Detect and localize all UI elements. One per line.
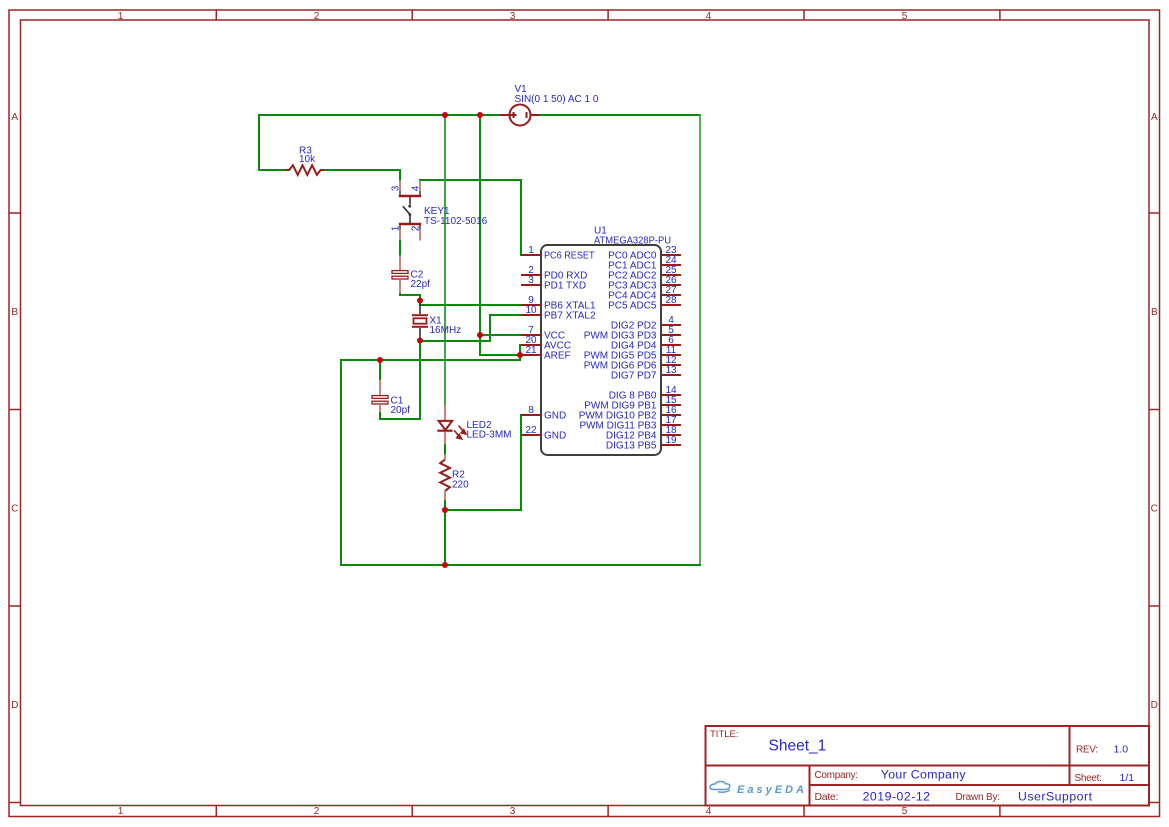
wire xyxy=(258,114,501,116)
wire xyxy=(699,114,701,566)
svg-text:EasyEDA: EasyEDA xyxy=(737,784,807,796)
svg-text:1: 1 xyxy=(391,225,402,231)
svg-text:5: 5 xyxy=(902,806,908,817)
svg-text:LED-3MM: LED-3MM xyxy=(467,430,512,441)
U1 pin 26 PC3 ADC3 xyxy=(608,275,681,292)
U1 pin 25 PC2 ADC2 xyxy=(608,265,681,282)
svg-text:DIG7 PD7: DIG7 PD7 xyxy=(611,371,657,382)
svg-text:DIG13 PB5: DIG13 PB5 xyxy=(606,441,657,452)
svg-text:UserSupport: UserSupport xyxy=(1018,789,1093,803)
crystal X1 xyxy=(412,303,428,339)
svg-text:A: A xyxy=(11,112,18,123)
svg-text:PC6 RESET: PC6 RESET xyxy=(544,251,595,262)
svg-text:13: 13 xyxy=(665,365,677,376)
U1 pin 16 PWM DIG10 PB2 xyxy=(579,405,681,422)
wire xyxy=(479,334,522,336)
svg-text:Your Company: Your Company xyxy=(881,767,967,781)
svg-text:REV:: REV: xyxy=(1076,744,1098,755)
svg-text:4: 4 xyxy=(411,185,422,191)
junction xyxy=(477,112,483,118)
U1 pin 18 DIG12 PB4 xyxy=(606,425,681,442)
C1 labels xyxy=(391,395,411,416)
wire xyxy=(419,304,522,306)
LED LED2 xyxy=(437,406,466,444)
LED2 labels xyxy=(467,420,512,441)
junction xyxy=(477,332,483,338)
wire xyxy=(399,239,401,256)
svg-text:8: 8 xyxy=(528,405,534,416)
svg-text:3: 3 xyxy=(510,806,516,817)
wire xyxy=(379,411,381,420)
junction xyxy=(517,352,523,358)
svg-text:10k: 10k xyxy=(299,154,316,165)
X1 labels xyxy=(430,315,462,336)
svg-text:A: A xyxy=(1151,112,1158,123)
svg-text:220: 220 xyxy=(452,479,469,490)
svg-text:4: 4 xyxy=(706,806,712,817)
svg-text:2: 2 xyxy=(314,11,320,22)
junction xyxy=(442,562,448,568)
svg-text:PD1 TXD: PD1 TXD xyxy=(544,281,586,292)
wire xyxy=(324,169,401,171)
wire xyxy=(379,359,381,381)
wire xyxy=(539,114,701,116)
svg-text:B: B xyxy=(1151,307,1158,318)
svg-text:Sheet_1: Sheet_1 xyxy=(769,738,827,755)
svg-text:1.0: 1.0 xyxy=(1114,744,1129,756)
U1 pin 11 PWM DIG5 PD5 xyxy=(584,345,681,362)
U1 pin 2 PD0 RXD xyxy=(521,265,587,282)
wire xyxy=(444,114,446,407)
svg-text:Date:: Date: xyxy=(815,791,839,803)
U1 pin 1 PC6 RESET xyxy=(521,245,595,262)
svg-text:TITLE:: TITLE: xyxy=(710,729,739,740)
KEY1 pin numbers xyxy=(391,185,422,231)
junction xyxy=(417,298,423,304)
U1 pin 9 PB6 XTAL1 xyxy=(521,295,596,312)
wire xyxy=(259,169,286,171)
svg-text:22: 22 xyxy=(525,425,537,436)
title block xyxy=(706,726,1150,806)
U1 pin 21 AREF xyxy=(521,345,571,362)
U1 pin 17 PWM DIG11 PB3 xyxy=(579,415,681,432)
U1 pin 15 PWM DIG9 PB1 xyxy=(584,395,681,412)
C2 labels xyxy=(411,269,431,290)
wire xyxy=(520,179,522,256)
wire xyxy=(419,179,421,181)
wire xyxy=(340,359,342,566)
wire xyxy=(444,444,446,455)
wire xyxy=(419,339,421,420)
U1 pin 12 PWM DIG6 PD6 xyxy=(584,355,681,372)
U1 pin 27 PC4 ADC4 xyxy=(608,285,681,302)
wire xyxy=(399,169,401,181)
junction xyxy=(442,507,448,513)
junction xyxy=(417,338,423,344)
U1 pin 22 GND xyxy=(521,425,566,442)
svg-text:22pf: 22pf xyxy=(411,279,431,290)
switch KEY1 xyxy=(399,181,421,241)
svg-text:4: 4 xyxy=(706,11,712,22)
svg-text:1: 1 xyxy=(118,11,124,22)
svg-text:3: 3 xyxy=(510,11,516,22)
wire xyxy=(340,564,701,566)
svg-text:5: 5 xyxy=(902,11,908,22)
svg-text:28: 28 xyxy=(665,295,677,306)
V1 labels xyxy=(515,84,599,105)
U1 labels xyxy=(594,226,671,247)
svg-text:Company:: Company: xyxy=(815,770,858,781)
wire xyxy=(258,114,260,171)
U1 pin 5 PWM DIG3 PD3 xyxy=(584,325,681,342)
U1 pin 20 AVCC xyxy=(521,335,571,352)
EasyEDA logo xyxy=(710,782,730,793)
capacitor C1 xyxy=(372,380,388,412)
junction xyxy=(377,357,383,363)
svg-text:16MHz: 16MHz xyxy=(430,325,462,336)
svg-text:AREF: AREF xyxy=(544,351,571,362)
resistor R3 xyxy=(285,165,324,175)
U1 pin 28 PC5 ADC5 xyxy=(608,295,681,312)
resistor R2 xyxy=(440,455,450,501)
svg-text:21: 21 xyxy=(525,345,537,356)
IC U1 body xyxy=(541,245,661,455)
svg-text:TS-1102-5016: TS-1102-5016 xyxy=(424,216,488,227)
svg-text:ATMEGA328P-PU: ATMEGA328P-PU xyxy=(594,235,671,246)
KEY1 labels xyxy=(424,206,488,227)
svg-text:C: C xyxy=(1151,504,1158,515)
capacitor C2 xyxy=(392,256,408,294)
svg-text:20pf: 20pf xyxy=(391,405,411,416)
wire xyxy=(479,114,481,336)
svg-text:1/1: 1/1 xyxy=(1120,772,1135,784)
svg-text:GND: GND xyxy=(544,431,566,442)
wire xyxy=(341,359,520,361)
U1 pin 10 PB7 XTAL2 xyxy=(521,305,596,322)
wire xyxy=(519,344,521,361)
svg-text:B: B xyxy=(11,307,18,318)
wire xyxy=(399,293,401,296)
U1 pin 8 GND xyxy=(521,405,566,422)
svg-text:1: 1 xyxy=(528,245,534,256)
U1 pin 7 VCC xyxy=(521,325,565,342)
svg-text:2: 2 xyxy=(314,806,320,817)
svg-text:GND: GND xyxy=(544,411,566,422)
U1 pin 14 DIG 8 PB0 xyxy=(609,385,681,402)
svg-text:2: 2 xyxy=(411,225,422,231)
svg-text:D: D xyxy=(11,700,18,711)
svg-text:2019-02-12: 2019-02-12 xyxy=(863,789,931,803)
U1 pin 6 DIG4 PD4 xyxy=(611,335,681,352)
junction xyxy=(442,112,448,118)
svg-text:3: 3 xyxy=(391,185,402,191)
U1 pin 4 DIG2 PD2 xyxy=(611,315,681,332)
svg-text:19: 19 xyxy=(665,435,677,446)
svg-text:D: D xyxy=(1151,700,1158,711)
svg-text:SIN(0 1 50) AC 1 0: SIN(0 1 50) AC 1 0 xyxy=(515,94,599,105)
U1 pin 24 PC1 ADC1 xyxy=(608,255,681,272)
svg-text:C: C xyxy=(11,504,18,515)
R3 labels xyxy=(299,146,316,165)
wire xyxy=(479,334,481,356)
U1 pin 19 DIG13 PB5 xyxy=(606,435,681,452)
svg-text:PB7 XTAL2: PB7 XTAL2 xyxy=(544,311,596,322)
svg-text:Drawn By:: Drawn By: xyxy=(956,792,1000,803)
svg-text:PC5 ADC5: PC5 ADC5 xyxy=(608,301,657,312)
wire xyxy=(520,414,522,511)
svg-text:Sheet:: Sheet: xyxy=(1075,773,1102,784)
svg-text:3: 3 xyxy=(528,275,534,286)
svg-text:10: 10 xyxy=(525,305,537,316)
U1 pin 23 PC0 ADC0 xyxy=(608,245,681,262)
wire xyxy=(444,500,446,567)
svg-text:1: 1 xyxy=(118,806,124,817)
U1 pin 13 DIG7 PD7 xyxy=(611,365,681,382)
U1 pin 3 PD1 TXD xyxy=(521,275,586,292)
voltage source V1 xyxy=(500,105,540,126)
wire xyxy=(419,340,491,342)
R2 labels xyxy=(452,469,469,490)
